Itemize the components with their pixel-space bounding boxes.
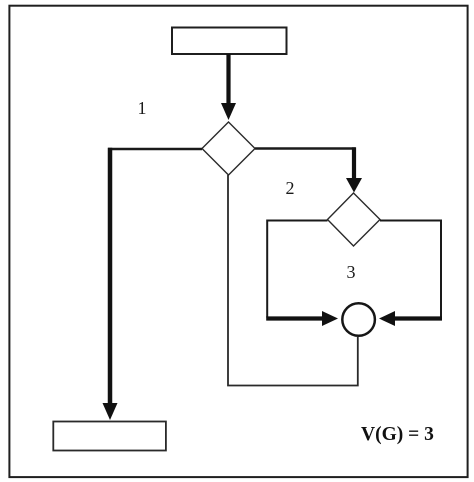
decision diamond 1	[202, 122, 255, 175]
loop wire right of diamond 2	[380, 221, 441, 318]
svg-text:2: 2	[286, 178, 295, 198]
thick arrow into junction circle from left	[266, 311, 338, 326]
wire right from diamond 1	[255, 147, 356, 149]
process box top	[172, 28, 287, 55]
loop wire left of diamond 2	[267, 221, 327, 318]
return wire from circle back to diamond 1	[228, 175, 358, 386]
svg-text:1: 1	[138, 98, 147, 118]
svg-text:3: 3	[347, 262, 356, 282]
decision diamond 2	[328, 193, 381, 246]
svg-text:V(G) = 3: V(G) = 3	[361, 424, 434, 445]
wire left from diamond 1	[108, 148, 202, 150]
junction circle	[342, 303, 375, 336]
arrow from top box to decision 1	[221, 54, 236, 120]
process box bottom-left	[53, 422, 166, 451]
thick arrow into junction circle from right	[379, 311, 442, 326]
thick arrow down-left branch	[103, 148, 118, 420]
thick arrow into decision 2	[346, 147, 362, 192]
